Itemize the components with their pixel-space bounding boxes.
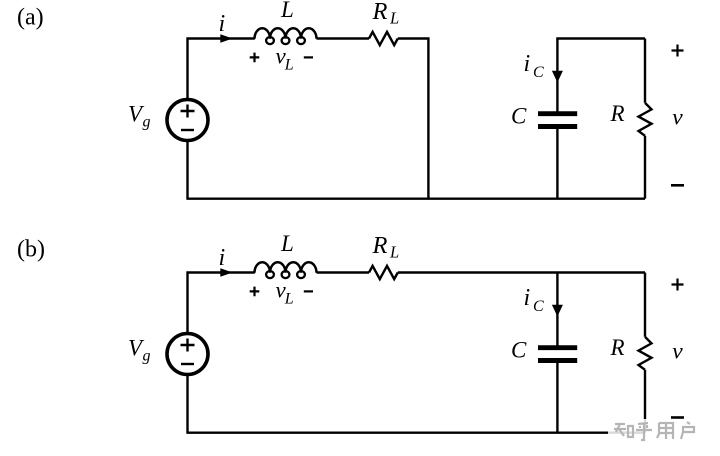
svg-text:L: L (389, 243, 399, 262)
capacitor C1 top plate (a) (538, 111, 577, 116)
svg-text:C: C (533, 298, 544, 315)
resistor RL zigzag (a) (369, 32, 398, 45)
plus sign inside source (a) (181, 105, 195, 118)
capacitor C2 top plate (b) (538, 345, 577, 350)
resistor R zigzag (b) (639, 337, 652, 370)
svg-text:L: L (280, 0, 294, 22)
wire: (a) C branch top (556, 39, 558, 112)
inductor L1 loops (a) (266, 37, 305, 44)
current arrow i (b) (220, 268, 232, 276)
wire: (b) C branch top (556, 273, 558, 346)
svg-text:(b): (b) (17, 237, 45, 263)
svg-text:R: R (372, 232, 388, 259)
wire: (a) C branch bottom (556, 129, 558, 199)
wire: (b) C branch bottom (556, 363, 558, 433)
label + of vL (b) (250, 287, 260, 297)
wire: (a) source top to inductor (left rail up + top rail) (188, 39, 255, 100)
svg-text:L: L (280, 231, 294, 256)
svg-text:C: C (533, 64, 544, 81)
svg-text:g: g (143, 114, 151, 131)
wire: (b) bottom rail (186, 432, 645, 434)
wire: (b) source bottom to bottom rail (186, 374, 188, 432)
minus sign inside source (b) (181, 363, 194, 365)
watermark glyph 乎 (636, 423, 652, 440)
wire: (a) inductor to RL (317, 37, 370, 39)
svg-text:v: v (672, 105, 683, 131)
plus sign inside source (b) (181, 339, 195, 352)
label + of vL (a) (250, 53, 260, 63)
wire: (b) R branch top (644, 273, 646, 337)
watermark background box (608, 419, 708, 443)
svg-text:R: R (372, 0, 388, 25)
current arrow iC (a) (552, 71, 563, 83)
current arrow iC (b) (552, 305, 563, 317)
svg-text:i: i (524, 285, 531, 311)
capacitor C2 bottom plate (b) (538, 358, 577, 363)
wire: (b) inductor to RL (317, 271, 370, 273)
voltage source Vg circle (b) (167, 334, 208, 375)
svg-text:C: C (511, 104, 527, 129)
wire: (a) R branch top (644, 39, 646, 103)
label + of v (b) (672, 279, 684, 291)
watermark glyph 知 (614, 424, 633, 437)
minus sign inside source (a) (181, 129, 194, 131)
wire: (b) source top to inductor (left rail up + top rail) (188, 273, 255, 334)
inductor L2 coil (b) (255, 262, 317, 273)
label minus of vL (a) (304, 56, 313, 58)
label minus of v (a) (671, 184, 684, 187)
label minus of vL (b) (304, 290, 313, 292)
wire: (b) R branch bottom (644, 370, 646, 433)
svg-text:L: L (284, 57, 294, 74)
svg-text:C: C (511, 338, 527, 363)
svg-text:i: i (524, 51, 531, 77)
capacitor C1 bottom plate (a) (538, 124, 577, 129)
wire: (a) R branch bottom (644, 136, 646, 199)
inductor L2 loops (b) (266, 271, 305, 278)
watermark glyph 户 (681, 422, 694, 439)
label + of v (a) (672, 45, 684, 57)
wire: (a) bottom rail (186, 197, 645, 199)
svg-text:(a): (a) (17, 5, 44, 31)
inductor L1 coil (a) (255, 28, 317, 39)
watermark glyph 用 (657, 423, 673, 439)
wire: (a) C-R subcircuit top rail (556, 37, 645, 39)
svg-text:g: g (143, 348, 151, 365)
svg-text:L: L (389, 9, 399, 28)
current arrow i (a) (220, 34, 232, 42)
voltage source Vg circle (a) (167, 100, 208, 141)
svg-text:i: i (219, 11, 226, 37)
wire: (b) RL to R branch (continuous top rail) (398, 271, 645, 273)
svg-text:R: R (610, 101, 625, 126)
resistor RL zigzag (b) (369, 266, 398, 279)
label minus of v (b) (671, 416, 684, 419)
svg-text:L: L (284, 291, 294, 308)
svg-text:v: v (672, 339, 683, 365)
wire: (a) source bottom to bottom rail (186, 140, 188, 198)
svg-text:i: i (219, 245, 226, 271)
wire: (a) RL to middle vertical, down to bottom rail (398, 39, 429, 199)
resistor R zigzag (a) (639, 103, 652, 136)
svg-text:R: R (610, 335, 625, 360)
